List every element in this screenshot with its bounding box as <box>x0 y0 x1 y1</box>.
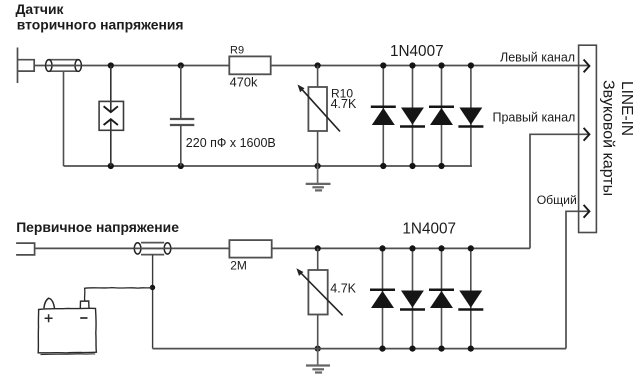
svg-text:Левый канал: Левый канал <box>500 50 575 64</box>
value label: 470k <box>230 75 258 90</box>
arrow: common into LINE-IN <box>584 205 590 218</box>
svg-text:2M: 2M <box>230 258 247 272</box>
value label: 2M <box>230 258 247 272</box>
ground (secondary circuit) <box>306 166 331 190</box>
svg-text:220 пФ х 1600В: 220 пФ х 1600В <box>186 136 276 150</box>
svg-text:LINE-IN: LINE-IN <box>618 81 635 136</box>
wire: top rail (secondary, to LINE-IN left channel) <box>34 65 588 67</box>
designator label: R10 <box>331 86 353 100</box>
part label: 1N4007 (top group) <box>390 43 444 60</box>
svg-text:4.7K: 4.7K <box>331 97 357 111</box>
label: Первичное напряжение <box>16 219 179 235</box>
connector: secondary probe body <box>18 60 35 71</box>
wire: bottom rail of primary circuit <box>153 348 566 350</box>
node: top rail / R10 junction <box>315 62 321 68</box>
resistor R9 <box>229 56 270 74</box>
battery (car accumulator, hand drawn) <box>38 298 96 354</box>
node: VD7 bottom <box>438 346 444 352</box>
wire: bottom rail of secondary circuit <box>64 165 473 167</box>
node: VD5 top <box>379 245 385 251</box>
resistor 2M <box>229 240 271 258</box>
diode VD6 (down) <box>400 248 425 348</box>
wire: primary cylinder drop to bottom rail <box>152 255 154 349</box>
label: Датчик вторичного напряжения <box>16 1 184 33</box>
svg-text:470k: 470k <box>230 75 258 90</box>
node: VD7 top <box>438 245 444 251</box>
svg-text:1N4007: 1N4007 <box>402 220 456 237</box>
label: LINE-IN (vertical) <box>618 81 635 136</box>
node: VD2 bottom <box>409 163 415 169</box>
label: Общий <box>537 193 577 207</box>
svg-text:вторичного напряжения: вторичного напряжения <box>17 17 184 33</box>
wire: top rail of primary circuit <box>35 247 530 249</box>
label: Правый канал <box>493 111 576 125</box>
diode VD5 (up) <box>370 248 395 348</box>
node: primary top rail / pot junction <box>315 245 321 251</box>
svg-text:4.7K: 4.7K <box>330 282 356 296</box>
designator label: R9 <box>230 45 244 57</box>
potentiometer 4.7K (primary) <box>296 248 342 348</box>
node: battery tap junction <box>150 285 155 290</box>
surge arrester (gas discharge tube) <box>99 66 123 167</box>
node: VD1 top <box>380 62 386 68</box>
arrow: right channel into LINE-IN <box>584 128 590 141</box>
diode VD2 (down) <box>400 66 425 167</box>
value label: 4.7K (bottom) <box>330 282 356 296</box>
capacitor C 220pF 1600V <box>170 66 194 167</box>
node: VD6 top <box>409 245 415 251</box>
sensor: primary pickup cylinder <box>134 243 171 255</box>
node: VD3 top <box>438 62 444 68</box>
node: VD8 top <box>468 245 474 251</box>
diode VD3 (up) <box>429 66 454 167</box>
diode VD4 (down) <box>458 66 483 167</box>
wire: right channel riser (primary top rail to LINE-IN) <box>530 134 588 248</box>
svg-text:Правый канал: Правый канал <box>493 111 576 125</box>
label: Левый канал <box>500 50 575 64</box>
node: VD1 bottom <box>380 163 386 169</box>
ground (primary circuit) <box>306 349 330 373</box>
value label: 4.7K (top) <box>331 97 357 111</box>
node: bottom rail / capacitor junction <box>178 163 184 169</box>
node: VD5 bottom <box>379 346 385 352</box>
part label: 1N4007 (bottom group) <box>402 220 456 237</box>
arrow: left channel into LINE-IN <box>584 60 590 73</box>
diode VD1 (up) <box>371 66 396 167</box>
wire: battery lead (hand drawn) <box>85 288 153 301</box>
node: bottom rail / arrester junction <box>108 163 114 169</box>
node: top rail / capacitor junction <box>178 62 184 68</box>
connector: LINE-IN socket box <box>579 45 597 232</box>
svg-text:Первичное напряжение: Первичное напряжение <box>16 219 179 235</box>
connector: secondary probe blade <box>17 48 19 84</box>
svg-text:Датчик: Датчик <box>16 1 64 17</box>
node: VD3 bottom <box>438 163 444 169</box>
wire: common riser (primary bottom rail to LINE-IN) <box>566 211 588 348</box>
node: top rail / arrester junction <box>108 62 114 68</box>
label: Звуковой карты (vertical) <box>600 80 617 196</box>
sensor: secondary pickup cylinder <box>46 60 82 72</box>
value label: 220 пФ х 1600В <box>186 136 276 150</box>
node: VD4 top <box>468 62 474 68</box>
svg-text:Звуковой карты: Звуковой карты <box>600 80 617 196</box>
node: VD8 bottom <box>468 346 474 352</box>
svg-text:1N4007: 1N4007 <box>390 43 444 60</box>
node: VD6 bottom <box>409 346 415 352</box>
svg-text:R9: R9 <box>230 45 244 57</box>
potentiometer R10 4.7K <box>298 66 341 167</box>
node: bottom rail / R10 junction <box>315 163 321 169</box>
diode VD7 (up) <box>429 248 454 348</box>
svg-text:Общий: Общий <box>537 193 577 207</box>
diode VD8 (down) <box>458 248 483 348</box>
connector: primary probe body (open left) <box>16 243 34 255</box>
node: VD2 top <box>409 62 415 68</box>
wire: cylinder shield drop to bottom rail <box>63 71 65 166</box>
node: primary bottom rail / pot junction <box>315 346 321 352</box>
